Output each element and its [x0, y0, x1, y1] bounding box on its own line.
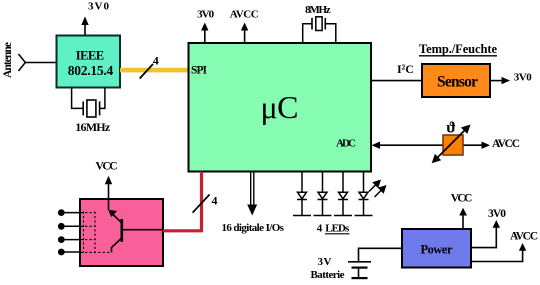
svg-text:3V0: 3V0: [488, 208, 506, 220]
svg-text:Power: Power: [421, 243, 453, 257]
svg-text:3V0: 3V0: [197, 9, 215, 21]
svg-text:802.15.4: 802.15.4: [68, 63, 114, 78]
svg-text:Temp./Feuchte: Temp./Feuchte: [419, 42, 497, 56]
svg-text:SPI: SPI: [191, 65, 208, 77]
svg-text:3V: 3V: [318, 256, 332, 268]
svg-text:VCC: VCC: [96, 160, 118, 172]
svg-text:3V0: 3V0: [514, 72, 533, 84]
svg-text:16MHz: 16MHz: [75, 120, 111, 134]
svg-text:4: 4: [212, 194, 218, 208]
svg-text:8MHz: 8MHz: [305, 4, 331, 16]
svg-text:16 digitale I/Os: 16 digitale I/Os: [221, 222, 284, 234]
svg-text:LEDs: LEDs: [325, 222, 350, 234]
svg-text:4: 4: [153, 54, 159, 68]
svg-text:Sensor: Sensor: [437, 74, 478, 91]
svg-text:ϑ: ϑ: [446, 120, 456, 137]
svg-text:Batterie: Batterie: [311, 269, 345, 281]
svg-text:μC: μC: [261, 89, 299, 125]
svg-text:AVCC: AVCC: [510, 230, 538, 242]
svg-text:Antenne: Antenne: [2, 42, 14, 78]
svg-text:AVCC: AVCC: [492, 138, 520, 150]
svg-text:AVCC: AVCC: [230, 9, 259, 21]
svg-text:I²C: I²C: [397, 62, 414, 76]
svg-text:3V0: 3V0: [88, 1, 110, 13]
svg-text:IEEE: IEEE: [76, 49, 105, 63]
svg-text:ADC: ADC: [336, 138, 356, 150]
svg-text:4: 4: [317, 222, 323, 234]
svg-text:VCC: VCC: [451, 193, 473, 205]
